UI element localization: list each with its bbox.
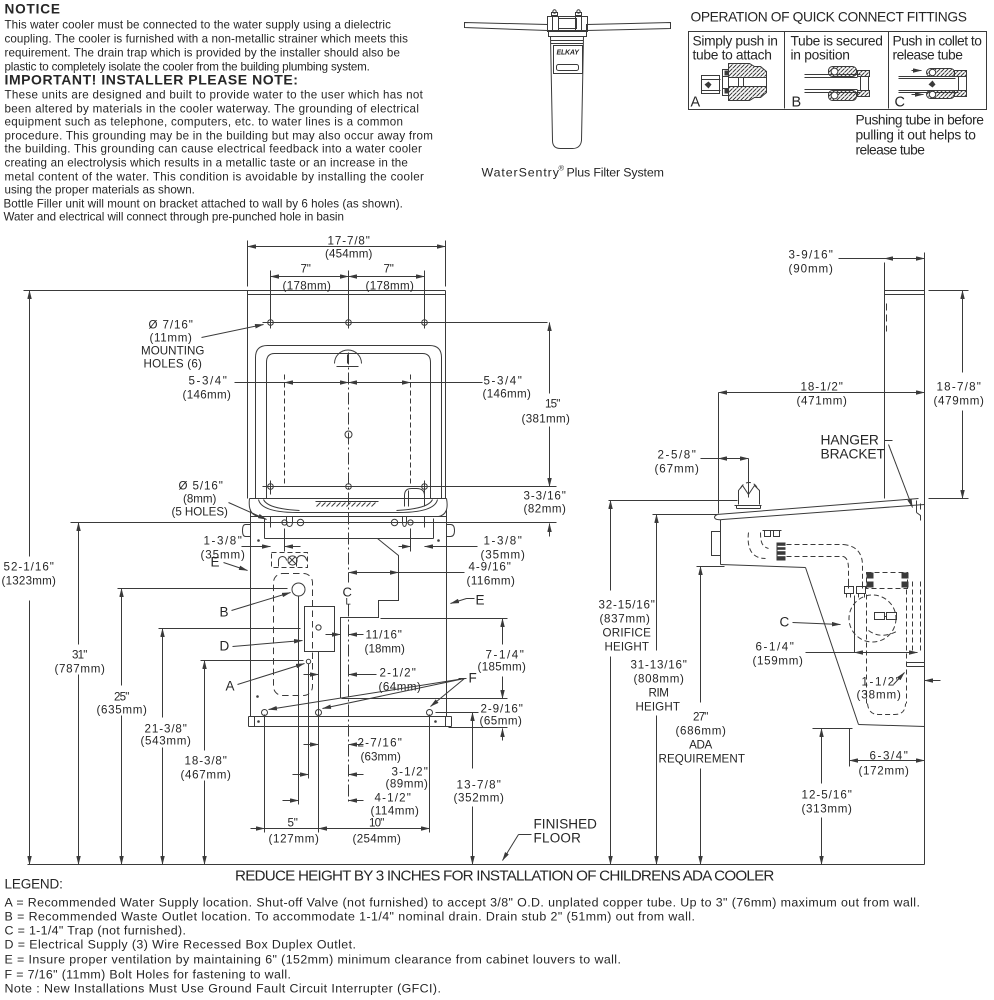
height dim 18-3/8 <box>181 661 304 865</box>
svg-text:NOTICE: NOTICE <box>5 2 60 17</box>
svg-text:A: A <box>226 679 235 694</box>
dimension 5-3/4 right <box>349 375 532 401</box>
cooler front face <box>720 520 722 565</box>
svg-text:BRACKET: BRACKET <box>821 447 886 462</box>
svg-text:(159mm): (159mm) <box>753 655 804 668</box>
svg-text:Ø 5/16": Ø 5/16" <box>179 480 223 493</box>
dimension 7-1/4 <box>342 619 527 699</box>
dimension 13-7/8 <box>436 713 505 865</box>
notice text block <box>4 2 433 224</box>
svg-text:IMPORTANT! INSTALLER PLEASE NO: IMPORTANT! INSTALLER PLEASE NOTE: <box>5 72 298 88</box>
dim 31-13/16 rim height <box>631 515 687 865</box>
bubbler dome front <box>335 350 362 367</box>
svg-text:the building. This grounding c: the building. This grounding can cause e… <box>5 143 423 156</box>
vent pipe dashed <box>913 582 921 651</box>
cover arch inner <box>267 354 431 499</box>
dimension 6-1/4 <box>753 641 918 668</box>
drain pipe dashed horizontal <box>787 545 844 557</box>
svg-text:(808mm): (808mm) <box>634 673 685 686</box>
svg-text:F: F <box>469 671 477 686</box>
bolt hole center <box>316 710 322 716</box>
electrical knockout dashed box <box>272 553 308 568</box>
filter body <box>551 37 584 149</box>
drain coupling <box>777 543 786 561</box>
mounting hole bottom right <box>422 481 428 495</box>
quick connect panel box <box>689 32 987 110</box>
letter E right <box>451 593 485 608</box>
svg-text:2-5/8": 2-5/8" <box>658 449 696 462</box>
bracket band inner verticals <box>265 519 434 539</box>
dimension 1-1/2 <box>857 673 941 702</box>
dimension 12-5/16 <box>802 729 853 865</box>
svg-text:Simply push in: Simply push in <box>693 34 778 49</box>
dimension 6-3/4 <box>850 729 925 778</box>
svg-text:1-3/8": 1-3/8" <box>484 535 522 548</box>
svg-text:(172mm): (172mm) <box>859 765 910 778</box>
wall line <box>924 253 926 865</box>
dimension 2-5/8 <box>655 449 749 498</box>
svg-text:D: D <box>220 639 230 654</box>
waste stepped line <box>341 539 399 699</box>
dimension 7 inch right <box>349 263 425 317</box>
orifice height extension <box>609 500 738 502</box>
svg-text:(185mm): (185mm) <box>478 661 527 674</box>
wall panel front edge <box>884 291 886 499</box>
column line A <box>308 664 310 779</box>
column line D <box>318 652 320 833</box>
svg-text:This water cooler must be conn: This water cooler must be connected to t… <box>5 19 392 32</box>
svg-text:(18mm): (18mm) <box>365 643 406 656</box>
basin drain grille <box>316 502 379 507</box>
wall panel top cap <box>885 291 925 295</box>
svg-text:in position: in position <box>791 48 850 63</box>
wall outlet stub <box>907 663 925 667</box>
bolt hole right <box>427 710 433 716</box>
svg-text:(116mm): (116mm) <box>467 575 516 588</box>
dimension 3-1/2 <box>293 766 429 791</box>
bolt hole left <box>262 710 268 716</box>
basin underside line <box>251 516 447 518</box>
svg-text:A: A <box>691 95 701 111</box>
hanging tab right <box>403 517 407 527</box>
centerline vertical <box>348 353 350 805</box>
dim 27 ADA requirement <box>659 567 745 865</box>
svg-text:(65mm): (65mm) <box>480 715 523 728</box>
dimension 11/16 <box>326 629 406 656</box>
svg-text:release tube: release tube <box>856 143 926 158</box>
cover arch outer <box>256 346 442 499</box>
letter A and leader <box>226 664 305 694</box>
svg-text:(471mm): (471mm) <box>797 395 848 408</box>
letter F and leaders <box>269 671 477 710</box>
dimension 5-3/4 left <box>183 375 349 402</box>
panel right side <box>445 291 447 499</box>
svg-text:5-3/4": 5-3/4" <box>189 375 227 388</box>
svg-text:(479mm): (479mm) <box>934 395 985 408</box>
ADA extension <box>697 566 725 568</box>
bubbler front <box>405 489 425 507</box>
cell A caption <box>691 34 778 111</box>
svg-text:(178mm): (178mm) <box>283 280 332 293</box>
svg-text:12-5/16": 12-5/16" <box>802 789 852 802</box>
svg-text:(67mm): (67mm) <box>655 463 700 476</box>
svg-text:(635mm): (635mm) <box>97 704 148 717</box>
trap circle dashed <box>849 595 896 642</box>
letter E left <box>211 555 248 571</box>
panel divider 2 <box>888 32 890 109</box>
mounting holes top row line <box>263 322 548 324</box>
svg-text:D = Electrical Supply (3) Wire: D = Electrical Supply (3) Wire Recessed … <box>5 938 356 952</box>
hole column dashed left <box>284 375 286 487</box>
hanger bracket label <box>821 433 913 508</box>
svg-text:(82mm): (82mm) <box>524 503 567 516</box>
svg-text:(11mm): (11mm) <box>150 332 193 345</box>
wall top extension line <box>24 290 248 292</box>
svg-text:(686mm): (686mm) <box>676 725 727 738</box>
dimension 18-1/2 <box>719 381 925 514</box>
svg-text:(8mm): (8mm) <box>183 493 217 506</box>
svg-text:tube to attach: tube to attach <box>693 48 772 63</box>
svg-text:(313mm): (313mm) <box>802 803 853 816</box>
svg-text:5": 5" <box>288 817 298 830</box>
rim extension <box>653 514 717 516</box>
svg-text:HEIGHT: HEIGHT <box>605 641 649 654</box>
trap centerline <box>854 596 856 653</box>
svg-text:(35mm): (35mm) <box>201 549 246 562</box>
dimension 3-3/16 <box>524 490 567 537</box>
svg-text:using the proper materials as: using the proper materials as shown. <box>5 184 195 197</box>
mounting hole top right <box>422 315 428 329</box>
svg-text:52-1/16": 52-1/16" <box>4 561 54 574</box>
panel left side <box>247 291 249 499</box>
height dim 21-3/8 <box>141 629 301 865</box>
svg-text:FINISHED: FINISHED <box>534 817 598 832</box>
svg-text:A = Recommended Water Supply l: A = Recommended Water Supply location. S… <box>5 896 920 910</box>
D electrical outlet box <box>305 607 335 652</box>
svg-text:(254mm): (254mm) <box>353 833 402 846</box>
dimension 1-3/8 left <box>201 529 301 562</box>
svg-text:1-3/8": 1-3/8" <box>204 535 242 548</box>
svg-text:Tube is secured: Tube is secured <box>791 34 883 49</box>
svg-text:(127mm): (127mm) <box>269 833 320 846</box>
svg-text:E: E <box>211 555 220 570</box>
front plate <box>712 532 721 556</box>
mounting hole top left <box>268 315 274 329</box>
svg-text:1-1/2": 1-1/2" <box>862 676 900 689</box>
svg-text:procedure. This grounding may: procedure. This grounding may be in the … <box>5 130 433 143</box>
letter C side and leader <box>780 615 841 630</box>
fitting C tube <box>899 77 959 93</box>
svg-text:(5 HOLES): (5 HOLES) <box>172 506 229 519</box>
svg-text:release tube: release tube <box>893 48 964 63</box>
svg-text:Plus Filter System: Plus Filter System <box>567 166 664 180</box>
svg-text:®: ® <box>559 164 565 173</box>
letter B and leader <box>220 593 291 620</box>
fitting A tube <box>702 76 721 94</box>
panel top edge <box>248 290 446 292</box>
svg-text:(63mm): (63mm) <box>361 751 402 764</box>
svg-text:32-15/16": 32-15/16" <box>599 599 655 612</box>
B waste outlet circle <box>292 583 305 596</box>
svg-text:E = Insure proper ventilation: E = Insure proper ventilation by maintai… <box>5 953 621 967</box>
height dim 52-1/16 <box>2 291 57 865</box>
dimension 4-1/2 <box>283 792 420 818</box>
finished floor label <box>503 817 598 861</box>
svg-text:(352mm): (352mm) <box>454 792 505 805</box>
dimension 3-9/16 <box>789 249 925 291</box>
svg-text:B = Recommended Waste Outlet l: B = Recommended Waste Outlet location. T… <box>5 910 695 924</box>
svg-text:F = 7/16" (11mm) Bolt Holes fo: F = 7/16" (11mm) Bolt Holes for fastenin… <box>5 968 291 982</box>
drain pipe bend dashed <box>844 545 863 582</box>
waste down leg dashed <box>867 590 907 715</box>
hanging tab left <box>287 517 293 527</box>
svg-text:FLOOR: FLOOR <box>534 831 582 846</box>
filter right tube <box>587 23 671 31</box>
cooler sloped bottom <box>806 568 859 725</box>
svg-text:18-3/8": 18-3/8" <box>185 755 227 768</box>
svg-text:C: C <box>895 95 905 111</box>
svg-text:(787mm): (787mm) <box>55 663 106 676</box>
height dim 25 <box>97 589 288 865</box>
mounting hole bottom left <box>268 481 274 495</box>
basin bowl contours <box>259 500 438 513</box>
cell C caption <box>893 34 983 111</box>
A water supply hole <box>306 659 310 663</box>
svg-text:13-7/8": 13-7/8" <box>457 779 501 792</box>
svg-text:been altered by materials in t: been altered by materials in the cooler … <box>5 103 419 116</box>
svg-text:4-9/16": 4-9/16" <box>469 561 511 574</box>
trap nuts <box>845 582 866 598</box>
small rivet dots <box>257 539 260 542</box>
svg-text:(543mm): (543mm) <box>141 735 192 748</box>
svg-text:4-1/2": 4-1/2" <box>375 792 411 805</box>
svg-text:Note : New Installations Must: Note : New Installations Must Use Ground… <box>5 982 441 996</box>
svg-text:Pushing tube in before: Pushing tube in before <box>856 113 985 128</box>
dimension 17-7/8 <box>248 235 446 287</box>
svg-text:(38mm): (38mm) <box>857 689 902 702</box>
fitting C collet arrows <box>912 70 922 72</box>
dimension 18-7/8 <box>929 291 985 499</box>
filter head <box>548 10 588 32</box>
panel edge dashes <box>886 304 888 332</box>
dimension 2-9/16 <box>449 703 523 741</box>
floor line <box>28 864 925 866</box>
svg-text:(1323mm): (1323mm) <box>2 575 57 588</box>
svg-text:10": 10" <box>369 817 384 830</box>
height dim 31 <box>55 523 106 865</box>
fitting B tube <box>805 75 861 93</box>
svg-text:HOLES (6): HOLES (6) <box>144 358 203 371</box>
ventilation dashed zone <box>274 574 313 696</box>
svg-text:3-3/16": 3-3/16" <box>524 490 566 503</box>
svg-text:REQUIREMENT: REQUIREMENT <box>659 753 745 766</box>
cabinet left side <box>250 510 252 717</box>
svg-text:25": 25" <box>114 691 129 704</box>
svg-text:metal content of the water. Th: metal content of the water. This conditi… <box>5 171 425 184</box>
svg-text:Bottle Filler unit will mount: Bottle Filler unit will mount on bracket… <box>4 198 403 211</box>
cooler bottom rear <box>859 725 925 727</box>
svg-text:L: L <box>346 597 351 608</box>
svg-text:equipment such as telephone, c: equipment such as telephone, computers, … <box>5 116 403 129</box>
svg-text:(467mm): (467mm) <box>181 769 232 782</box>
svg-text:(178mm): (178mm) <box>366 280 415 293</box>
dimension 7 inch left <box>271 263 349 317</box>
hanger bracket profile <box>917 501 921 521</box>
column line B <box>298 597 300 805</box>
dimension 1-3/8 right <box>399 529 526 562</box>
fitting C body <box>927 69 967 99</box>
svg-text:3-9/16": 3-9/16" <box>789 249 833 262</box>
svg-text:pulling it out helps to: pulling it out helps to <box>856 128 977 143</box>
svg-text:Ø 7/16": Ø 7/16" <box>149 319 193 332</box>
svg-text:ELKAY: ELKAY <box>557 50 581 57</box>
svg-text:These units are designed and b: These units are designed and built to pr… <box>5 89 424 102</box>
svg-text:B: B <box>220 605 229 620</box>
svg-text:HANGER: HANGER <box>821 433 879 448</box>
filter collar <box>549 31 587 37</box>
filter label plate <box>554 46 583 74</box>
svg-text:(837mm): (837mm) <box>600 613 651 626</box>
filter caption <box>482 164 664 180</box>
basin top edge <box>249 499 447 517</box>
dimension 15 inch <box>522 323 571 487</box>
svg-text:17-7/8": 17-7/8" <box>328 235 370 248</box>
svg-text:7": 7" <box>301 263 311 276</box>
svg-text:2-7/16": 2-7/16" <box>358 737 402 750</box>
dimension 2-7/16 <box>304 737 402 764</box>
note under panel <box>856 113 985 158</box>
waste tee dashed box <box>867 573 909 589</box>
svg-text:15": 15" <box>545 398 560 411</box>
cabinet right side <box>446 510 448 717</box>
svg-text:ORIFICE: ORIFICE <box>603 627 652 640</box>
cooler bottom front <box>721 565 806 568</box>
panel divider 1 <box>784 32 786 109</box>
svg-text:RIM: RIM <box>648 687 668 700</box>
fitting A body <box>729 64 767 101</box>
svg-text:B: B <box>792 95 801 111</box>
mounting hole top center <box>346 315 352 329</box>
svg-text:11/16": 11/16" <box>366 629 402 642</box>
svg-text:LEGEND:: LEGEND: <box>5 877 63 892</box>
svg-text:MOUNTING: MOUNTING <box>141 345 204 358</box>
centerline symbol <box>343 585 352 608</box>
svg-text:18-1/2": 18-1/2" <box>801 381 843 394</box>
basin profile <box>715 499 925 520</box>
column line right bolt <box>429 715 431 833</box>
basin hole row line (31in extension) <box>71 522 557 524</box>
svg-text:(381mm): (381mm) <box>522 413 571 426</box>
left wing bracket <box>243 525 251 537</box>
fitting B body <box>829 67 870 101</box>
svg-text:31": 31" <box>72 649 87 662</box>
svg-text:31-13/16": 31-13/16" <box>631 659 687 672</box>
svg-text:coupling. The cooler is furnis: coupling. The cooler is furnished with a… <box>5 33 409 46</box>
center hole <box>345 431 352 438</box>
svg-text:18-7/8": 18-7/8" <box>937 381 981 394</box>
fitting A collet <box>723 70 729 96</box>
bubbler side <box>735 482 762 508</box>
svg-text:REDUCE HEIGHT BY 3 INCHES FOR: REDUCE HEIGHT BY 3 INCHES FOR INSTALLATI… <box>235 868 774 885</box>
mounting holes label <box>141 319 264 371</box>
svg-text:2-1/2": 2-1/2" <box>380 667 416 680</box>
svg-text:(89mm): (89mm) <box>386 778 429 791</box>
svg-text:6-1/4": 6-1/4" <box>756 641 794 654</box>
cell B caption <box>791 34 883 111</box>
dimension 5 and 10 inch line <box>251 817 430 846</box>
svg-text:Water and electrical will conn: Water and electrical will connect throug… <box>4 211 344 224</box>
legend <box>5 877 920 996</box>
svg-text:requirement. The drain trap wh: requirement. The drain trap which is pro… <box>5 47 400 60</box>
mounting holes bottom row line <box>263 486 557 488</box>
dim 32-15/16 orifice height <box>599 501 655 865</box>
svg-text:(454mm): (454mm) <box>325 248 373 261</box>
dimension 4-9/16 <box>349 561 516 588</box>
mounting hole bottom center <box>346 484 352 490</box>
column line left bolt <box>264 715 266 833</box>
svg-text:creating an electrolysis which: creating an electrolysis which results i… <box>5 157 408 170</box>
hole column dashed right <box>410 375 412 487</box>
svg-text:C = 1-1/4" Trap (not furnished: C = 1-1/4" Trap (not furnished). <box>5 924 186 938</box>
trap cleanout unions <box>869 613 897 636</box>
svg-text:WaterSentry: WaterSentry <box>482 166 560 180</box>
letter D and leader <box>220 639 303 654</box>
drain elbow dashed <box>748 531 781 559</box>
right wing bracket <box>447 525 455 537</box>
svg-text:C: C <box>780 615 790 630</box>
svg-text:7": 7" <box>384 263 394 276</box>
svg-text:HEIGHT: HEIGHT <box>636 701 680 714</box>
svg-text:27": 27" <box>693 711 708 724</box>
svg-text:(90mm): (90mm) <box>789 263 834 276</box>
cabinet bottom band <box>249 717 452 727</box>
dimension 2-1/2 <box>304 667 422 694</box>
svg-text:Push in collet to: Push in collet to <box>893 34 983 49</box>
basin bolt holes (5) <box>271 517 425 528</box>
svg-text:(146mm): (146mm) <box>483 388 532 401</box>
svg-text:5-3/4": 5-3/4" <box>484 375 522 388</box>
svg-text:(146mm): (146mm) <box>183 389 232 402</box>
svg-text:E: E <box>476 593 485 608</box>
svg-text:ADA: ADA <box>689 739 712 752</box>
basin holes label <box>172 480 267 520</box>
svg-text:OPERATION OF QUICK CONNECT FIT: OPERATION OF QUICK CONNECT FITTINGS <box>691 10 967 25</box>
filter left tube <box>465 23 548 31</box>
